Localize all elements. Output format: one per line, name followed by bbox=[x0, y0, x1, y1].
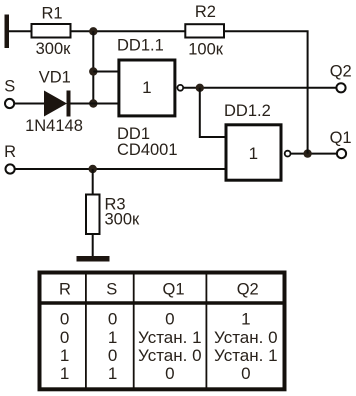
truth table row 1 bbox=[60, 310, 251, 329]
svg-text:1: 1 bbox=[108, 328, 117, 347]
svg-text:Устан. 1: Устан. 1 bbox=[214, 346, 278, 365]
junction on DD1.1 input 1 bbox=[89, 67, 97, 75]
label R1 value 300к bbox=[36, 40, 72, 58]
svg-text:S: S bbox=[106, 280, 117, 298]
terminal Q2 bbox=[336, 83, 345, 92]
truth table row 2 bbox=[60, 328, 278, 347]
svg-text:Q1: Q1 bbox=[330, 129, 352, 147]
svg-text:R2: R2 bbox=[195, 3, 216, 21]
svg-text:0: 0 bbox=[60, 310, 69, 329]
truth table header R bbox=[59, 280, 71, 298]
svg-text:0: 0 bbox=[108, 346, 117, 365]
label R3 value 300к bbox=[105, 211, 141, 229]
label Q2 bbox=[330, 62, 352, 80]
label S bbox=[4, 78, 15, 96]
svg-text:Устан. 1: Устан. 1 bbox=[138, 328, 202, 347]
svg-text:Q2: Q2 bbox=[237, 280, 259, 298]
svg-text:1N4148: 1N4148 bbox=[25, 117, 83, 135]
truth table header Q2 bbox=[237, 280, 259, 298]
wire DD1.2 output to Q1 bbox=[291, 153, 337, 155]
truth table frame bbox=[40, 273, 285, 390]
truth table column separator Q1|Q2 bbox=[205, 272, 207, 390]
junction node A bbox=[89, 27, 97, 35]
wire R to DD1.2 pin 2 bbox=[15, 168, 226, 170]
terminal S bbox=[5, 99, 14, 108]
label DD1 bbox=[117, 125, 150, 143]
junction R3 node bbox=[89, 165, 97, 173]
svg-text:0: 0 bbox=[108, 310, 117, 329]
svg-text:100к: 100к bbox=[188, 41, 224, 59]
svg-text:300к: 300к bbox=[105, 211, 141, 229]
label DD1 part CD4001 bbox=[117, 141, 178, 159]
label VD1 bbox=[39, 69, 71, 87]
wire node A to R2 bbox=[93, 30, 186, 32]
label VD1 part 1N4148 bbox=[25, 117, 83, 135]
svg-text:R1: R1 bbox=[41, 4, 62, 22]
label R3 bbox=[105, 196, 126, 214]
wire to R3 bbox=[92, 169, 94, 195]
svg-text:1: 1 bbox=[60, 346, 69, 365]
terminal Q1 bbox=[337, 149, 346, 158]
inversion bubble DD1.1 output bbox=[177, 85, 183, 91]
svg-text:R: R bbox=[4, 143, 16, 161]
svg-text:S: S bbox=[4, 78, 15, 96]
svg-text:DD1.2: DD1.2 bbox=[224, 102, 271, 120]
label R2 bbox=[195, 3, 216, 21]
svg-text:1: 1 bbox=[142, 78, 151, 97]
label R2 value 100к bbox=[188, 41, 224, 59]
wire DD1.1 output to Q2 bbox=[184, 87, 337, 89]
truth table row 4 bbox=[60, 364, 251, 383]
svg-text:1: 1 bbox=[60, 364, 69, 383]
label R1 bbox=[41, 4, 62, 22]
svg-text:Устан. 0: Устан. 0 bbox=[138, 346, 202, 365]
truth table header Q1 bbox=[162, 280, 184, 298]
wire plate to R1 bbox=[9, 30, 33, 32]
ground bbox=[77, 256, 110, 262]
svg-text:1: 1 bbox=[241, 310, 250, 329]
svg-text:Q1: Q1 bbox=[162, 280, 184, 298]
wire to DD1.1 pin 1 bbox=[93, 71, 118, 73]
svg-text:0: 0 bbox=[165, 310, 174, 329]
svg-text:VD1: VD1 bbox=[39, 69, 71, 87]
svg-text:DD1.1: DD1.1 bbox=[117, 36, 164, 54]
resistor R3 bbox=[86, 195, 100, 235]
svg-text:Q2: Q2 bbox=[330, 62, 352, 80]
wire DD1.1 output to DD1.2 pin 1 bbox=[200, 88, 226, 137]
svg-text:1: 1 bbox=[108, 364, 117, 383]
resistor R1 bbox=[32, 24, 71, 38]
resistor R2 bbox=[185, 24, 224, 37]
wire R2 to Q1 feedback bbox=[224, 31, 308, 153]
svg-text:R: R bbox=[59, 280, 71, 298]
wire S to VD1 anode bbox=[14, 103, 45, 105]
label DD1.2 bbox=[224, 102, 271, 120]
truth table column separator S|Q1 bbox=[133, 272, 135, 390]
junction on S line bbox=[89, 99, 97, 107]
sensor plate E1 bbox=[5, 15, 10, 49]
svg-text:0: 0 bbox=[241, 364, 250, 383]
terminal R bbox=[6, 164, 15, 173]
diode VD1 bbox=[44, 91, 71, 117]
wire VD1 cathode to DD1.1 pin 2 bbox=[71, 103, 119, 105]
junction Q1 node bbox=[303, 149, 311, 157]
inversion bubble DD1.2 output bbox=[285, 151, 291, 157]
NOR gate DD1.2 bbox=[226, 125, 281, 180]
label DD1.1 bbox=[117, 36, 164, 54]
svg-text:1: 1 bbox=[249, 144, 258, 163]
label R bbox=[4, 143, 16, 161]
svg-text:Устан. 0: Устан. 0 bbox=[214, 328, 278, 347]
junction DD1.1 output node bbox=[196, 84, 204, 92]
wire node A down to S line bbox=[92, 31, 94, 103]
wire R1 to node A bbox=[71, 30, 94, 32]
svg-text:CD4001: CD4001 bbox=[117, 141, 178, 159]
truth table header separator bbox=[38, 301, 287, 305]
NOR gate DD1.1 bbox=[119, 60, 175, 116]
truth table column separator R|S bbox=[85, 272, 87, 390]
svg-text:0: 0 bbox=[165, 364, 174, 383]
truth table row 3 bbox=[60, 346, 278, 365]
label Q1 bbox=[330, 129, 352, 147]
truth table header S bbox=[106, 280, 117, 298]
svg-text:0: 0 bbox=[60, 328, 69, 347]
svg-text:300к: 300к bbox=[36, 40, 72, 58]
wire R3 to ground bbox=[92, 234, 94, 257]
